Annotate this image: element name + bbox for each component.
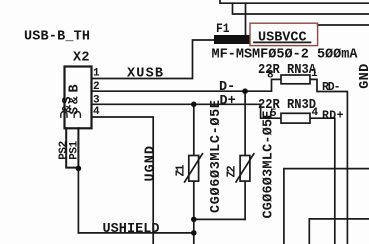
svg-text:Z2: Z2 xyxy=(226,165,239,177)
svg-text:GND: GND xyxy=(358,64,369,89)
svg-text:D-: D- xyxy=(219,80,235,95)
junction node PS xyxy=(76,166,82,172)
svg-text:CGØ6Ø3MLC-Ø5E: CGØ6Ø3MLC-Ø5E xyxy=(209,100,224,213)
svg-text:RD-: RD- xyxy=(322,81,341,94)
resistor RN3D xyxy=(281,113,310,123)
wire right rail B xyxy=(309,219,369,244)
svg-text:4: 4 xyxy=(93,106,100,118)
wire RN3D right to RD+ xyxy=(310,118,335,244)
connector jumble cup right xyxy=(74,112,80,118)
label underline USBVCC xyxy=(254,41,311,43)
wire PS2 PS1 loop xyxy=(66,128,78,167)
svg-text:5: 5 xyxy=(270,108,277,120)
junction node D- Z2 xyxy=(242,88,248,94)
svg-text:CGØ6Ø3MLC-Ø5E: CGØ6Ø3MLC-Ø5E xyxy=(262,111,277,219)
svg-text:4: 4 xyxy=(312,107,319,119)
svg-text:8: 8 xyxy=(267,69,274,81)
wire Z1 bottom xyxy=(193,181,195,244)
wire pin4 UGND xyxy=(92,117,154,244)
wire Z2 top xyxy=(244,91,246,155)
junction node D+ Z1 xyxy=(191,102,197,108)
wire pin2 D- xyxy=(92,79,282,91)
junction node USHIELD xyxy=(191,230,197,236)
wire Z1 top xyxy=(193,104,195,155)
varistor Z2 xyxy=(240,156,250,182)
svg-text:USB-B_TH: USB-B_TH xyxy=(24,30,90,45)
svg-text:3: 3 xyxy=(93,94,100,106)
wire Z2 to Z1 link xyxy=(194,218,245,220)
svg-text:&S: &S xyxy=(61,96,75,112)
fuse F1 body xyxy=(214,35,250,44)
wire USBVCC vertical from fuse xyxy=(245,3,247,35)
junction node Z link xyxy=(191,217,197,223)
svg-text:RD+: RD+ xyxy=(322,109,344,122)
wire USHIELD xyxy=(78,232,193,234)
svg-text:1: 1 xyxy=(93,68,100,80)
wire top rail 2 xyxy=(233,3,369,14)
resistor RN3A xyxy=(281,75,310,84)
wire USBVCC out to right edge xyxy=(318,24,369,26)
svg-text:X2: X2 xyxy=(73,51,90,66)
wire right rail A xyxy=(284,169,369,244)
red highlight box USBVCC xyxy=(250,23,318,45)
svg-text:PS1: PS1 xyxy=(68,140,80,159)
varistor Z1 xyxy=(189,156,199,182)
svg-text:UGND: UGND xyxy=(144,146,159,182)
svg-text:XUSB: XUSB xyxy=(127,67,163,82)
wire RN3A right to RD- xyxy=(310,79,347,244)
wire pin1 XUSB to fuse xyxy=(92,40,215,79)
wire top rail 1 xyxy=(220,0,369,3)
svg-text:B: B xyxy=(68,84,83,92)
wire Z2 bottom xyxy=(244,181,246,219)
svg-text:USBVCC: USBVCC xyxy=(258,30,307,45)
svg-text:MF-MSMFØ5Ø-2 5ØØmA: MF-MSMFØ5Ø-2 5ØØmA xyxy=(212,48,359,63)
svg-text:1: 1 xyxy=(311,68,318,80)
connector jumble cup left xyxy=(61,111,67,117)
svg-text:Z1: Z1 xyxy=(175,164,188,176)
svg-text:USHIELD: USHIELD xyxy=(103,222,160,237)
connector X2 box xyxy=(65,67,92,129)
wire shield drop xyxy=(77,168,79,233)
svg-text:2: 2 xyxy=(93,81,100,93)
wire pin3 D+ xyxy=(92,104,282,118)
svg-text:F1: F1 xyxy=(216,21,230,36)
